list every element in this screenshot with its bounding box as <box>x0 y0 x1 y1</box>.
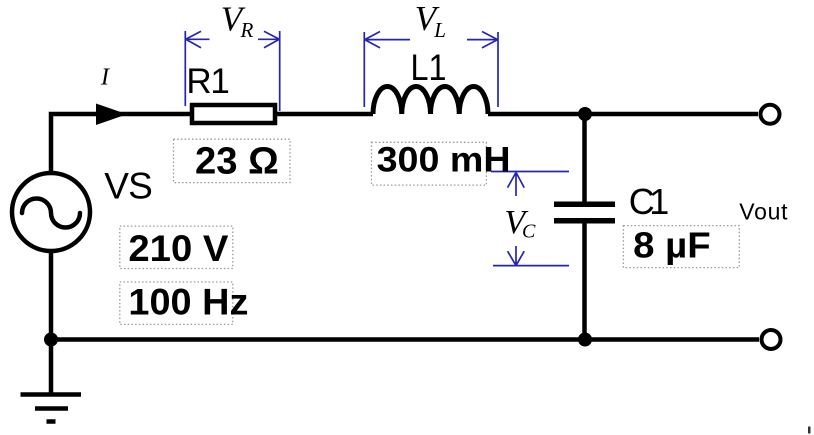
svg-text:C: C <box>522 221 536 243</box>
svg-text:R: R <box>240 18 254 42</box>
svg-text:100 Hz: 100 Hz <box>128 281 248 323</box>
svg-text:VS: VS <box>104 165 153 206</box>
svg-text:300 mH: 300 mH <box>377 141 511 180</box>
svg-text:I: I <box>100 65 110 91</box>
svg-text:L: L <box>433 18 446 42</box>
svg-text:8 µF: 8 µF <box>633 225 711 266</box>
svg-text:Vout: Vout <box>739 198 788 224</box>
svg-text:C1: C1 <box>629 181 670 222</box>
svg-text:L1: L1 <box>411 47 447 88</box>
svg-text:210 V: 210 V <box>128 227 228 269</box>
svg-text:23 Ω: 23 Ω <box>195 141 279 183</box>
svg-text:R1: R1 <box>186 62 230 101</box>
